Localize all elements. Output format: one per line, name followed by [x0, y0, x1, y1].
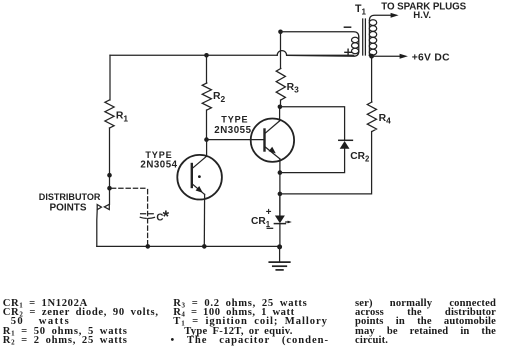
svg-text:+6V DC: +6V DC [412, 53, 450, 64]
capacitor C* (dashed optional branch) [112, 188, 148, 244]
label R1 [116, 111, 129, 124]
label R2 [213, 91, 226, 104]
svg-text:DISTRIBUTOR: DISTRIBUTOR [39, 192, 101, 202]
wire: rail to R2 [206, 55, 208, 83]
wire hop: rail crossing over R3 branch [277, 51, 286, 56]
transistor Q1 2N3054 [177, 155, 222, 200]
node: primary top / R3 branch [278, 30, 283, 35]
label T1 [355, 3, 366, 17]
svg-text:*: * [163, 208, 170, 226]
label +6V DC [412, 53, 450, 64]
resistor R2 [202, 83, 211, 110]
resistor R3 [276, 69, 285, 101]
node: ground junction [277, 244, 282, 249]
svg-text:POINTS: POINTS [50, 202, 87, 213]
wire: R3 to collector node [280, 100, 282, 107]
transformer T1 primary winding [281, 32, 359, 57]
svg-text:R2: R2 [213, 91, 226, 104]
wire: base node to 2N3055 base [207, 139, 265, 141]
label TYPE 2N3054 [140, 150, 177, 170]
svg-text:CR2: CR2 [350, 151, 370, 164]
node: R2 / 2N3054 collector / 2N3055 base [204, 137, 209, 142]
svg-text:H.V.: H.V. [413, 10, 431, 21]
wire: R1 to distributor points [109, 128, 111, 204]
wire: 2N3054 emitter down to ground rail [203, 194, 205, 246]
svg-text:T1: T1 [355, 3, 366, 17]
footnote column 3 [355, 299, 496, 345]
node: emitter / CR2 return [278, 170, 283, 175]
node: R3 / 2N3055 collector / CR2 [278, 105, 283, 110]
distributor points contacts [97, 204, 110, 246]
svg-text:TYPE: TYPE [221, 115, 248, 125]
resistor R1 [105, 100, 114, 128]
node: capacitor branch junction [107, 186, 112, 191]
transformer T1 polarity marks [344, 27, 351, 55]
wire: 2N3055 collector up to R3 node [279, 107, 281, 121]
svg-text:CR1: CR1 [251, 216, 271, 229]
wire: 2N3054 collector up to base node [206, 140, 208, 157]
node: +6V junction at secondary bottom [369, 54, 374, 59]
wire: left vertical from rail to R1 [109, 55, 111, 100]
wire: CR2 branch bottom return [280, 149, 345, 173]
parts list column 1 [3, 299, 169, 345]
transistor Q2 2N3055 [251, 119, 294, 162]
svg-text:R1: R1 [116, 111, 129, 124]
wire: bottom ground rail [97, 245, 280, 247]
wire: R3 branch from primary node [280, 32, 282, 69]
label TO SPARK PLUGS H.V. [381, 1, 466, 21]
arrow: to spark plugs [391, 13, 399, 18]
wire: 2N3055 emitter chain [279, 159, 281, 216]
arrow: +6V DC feed [372, 54, 408, 59]
resistor R4 [367, 102, 376, 132]
wire: R4 branch from +6V node [371, 56, 373, 102]
node: capacitor on ground rail [146, 244, 151, 249]
svg-text:+: + [266, 207, 272, 218]
label CR2 [350, 151, 370, 164]
capacitor C* plates [140, 214, 154, 219]
wire: R2 to base node [206, 110, 208, 140]
svg-text:R3: R3 [287, 82, 300, 95]
label C* [156, 208, 169, 226]
label DISTRIBUTOR POINTS [39, 192, 101, 213]
wire: CR1 cathode to ground rail [279, 224, 281, 247]
diode CR1 [274, 216, 291, 224]
transformer T1 secondary winding [369, 15, 396, 56]
wire: CR1 anode lead [279, 194, 281, 216]
parts list column 2 [173, 299, 348, 345]
label R4 [379, 113, 392, 126]
diode CR2 (zener) [339, 140, 353, 149]
ground symbol [269, 247, 290, 270]
svg-text:R4: R4 [379, 113, 392, 126]
label CR1 with polarity [251, 207, 273, 229]
label R3 [287, 82, 300, 95]
wire: top supply rail [110, 54, 354, 56]
label TYPE 2N3055 [214, 115, 251, 137]
node: emitter / R4 return [278, 192, 283, 197]
svg-text:2N3055: 2N3055 [214, 125, 251, 136]
wire: CR2 branch top [280, 107, 345, 140]
node: R1 / 2N3054 base junction [107, 173, 112, 178]
node: 2N3054 emitter on ground rail [202, 244, 207, 249]
svg-text:2N3054: 2N3054 [140, 160, 177, 171]
transformer T1 core [363, 19, 366, 55]
node: R2 top on supply rail [204, 53, 209, 58]
wire: R4 return to emitter chain [280, 132, 372, 194]
